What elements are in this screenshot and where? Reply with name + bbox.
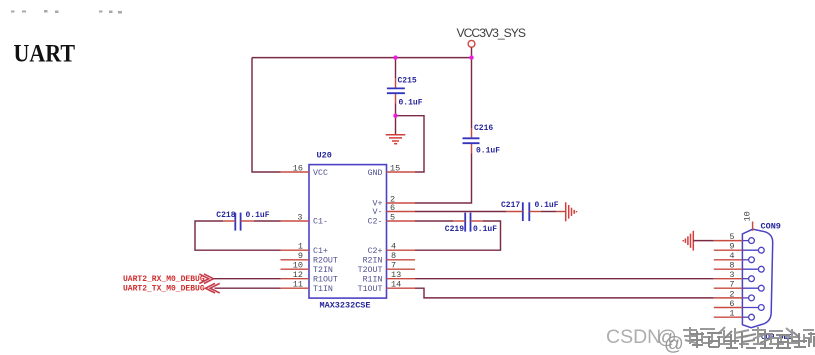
svg-text:10: 10 bbox=[293, 261, 303, 271]
svg-text:T2IN: T2IN bbox=[313, 266, 333, 275]
wire V- row to C217 bbox=[415, 211, 506, 213]
wire TX to pin 11 bbox=[215, 287, 281, 289]
svg-text:5: 5 bbox=[729, 232, 734, 242]
IC U20 body bbox=[309, 151, 387, 311]
CON9 pin 3 bbox=[714, 270, 755, 282]
watermark hanzi layer 1 bbox=[683, 327, 814, 344]
ground G3 (DB9 pin 5, left-pointing) bbox=[683, 231, 693, 251]
svg-text:UART: UART bbox=[14, 41, 76, 68]
U20 pin 10 T2IN stub bbox=[281, 261, 310, 271]
svg-text:3: 3 bbox=[729, 270, 734, 280]
wire C218 left to C1+ loop bbox=[223, 220, 235, 222]
U20 pin 3 C1- stub bbox=[281, 212, 310, 222]
wire VCC3V3 vertical upper (port to C216) bbox=[471, 47, 473, 128]
capacitor C219 bbox=[445, 213, 497, 234]
svg-text:CON9: CON9 bbox=[761, 222, 781, 232]
svg-text:7: 7 bbox=[391, 261, 396, 271]
node junction B (top bus / VCC3V3) bbox=[469, 55, 473, 59]
CON9 pin 10 shield stub bbox=[743, 211, 753, 231]
svg-text:T2OUT: T2OUT bbox=[358, 266, 383, 275]
U20 pin 15 GND stub bbox=[387, 163, 416, 173]
svg-text:VCC3V3_SYS: VCC3V3_SYS bbox=[457, 26, 527, 40]
U20 pin 14 T1OUT stub bbox=[387, 280, 416, 290]
svg-text:0.1uF: 0.1uF bbox=[473, 225, 497, 234]
svg-text:R2OUT: R2OUT bbox=[313, 256, 338, 265]
svg-text:14: 14 bbox=[391, 280, 401, 290]
U20 pin 12 R1OUT stub bbox=[281, 270, 310, 280]
ground G2 (C217, right-pointing) bbox=[566, 202, 577, 221]
CON9 pin 9 bbox=[714, 242, 764, 254]
port UART2_RX_M0_DEBUG bbox=[123, 274, 213, 284]
CON9 pin 7 bbox=[714, 280, 764, 292]
CON9 pin 4 bbox=[714, 251, 755, 262]
wire T1OUT to DB9 pin 2 bbox=[415, 288, 714, 298]
svg-text:6: 6 bbox=[390, 203, 395, 213]
wire C219 to C2+ loop bbox=[471, 220, 484, 222]
svg-text:C1-: C1- bbox=[313, 218, 328, 227]
capacitor C216 bbox=[463, 124, 501, 156]
svg-text:C1+: C1+ bbox=[313, 247, 328, 256]
CON9 pin 2 bbox=[714, 289, 755, 301]
node junction A (top bus / C215) bbox=[393, 55, 397, 59]
wire C217 to ground G2 bbox=[529, 211, 541, 213]
svg-text:R1OUT: R1OUT bbox=[313, 275, 338, 284]
svg-text:U20: U20 bbox=[317, 151, 332, 161]
U20 pin 7 T2OUT stub bbox=[387, 261, 416, 271]
svg-text:R2IN: R2IN bbox=[363, 256, 383, 265]
svg-text:2: 2 bbox=[729, 289, 734, 299]
svg-text:C217: C217 bbox=[501, 201, 520, 210]
svg-text:GND: GND bbox=[368, 169, 383, 178]
wire left vertical to VCC pin bbox=[252, 58, 281, 172]
svg-text:1: 1 bbox=[729, 309, 734, 319]
wire junction to ground G1 bbox=[395, 116, 397, 135]
power port VCC3V3_SYS bbox=[457, 26, 527, 47]
U20 pin 1 C1+ stub bbox=[281, 242, 310, 252]
connector CON9 DB9 shell bbox=[742, 222, 781, 328]
wire C215 lower to junction bbox=[395, 94, 397, 104]
watermark CSDN bbox=[606, 326, 684, 355]
CON9 pin 8 bbox=[714, 261, 764, 273]
capacitor C217 bbox=[501, 201, 559, 221]
wire G3 to DB9 pin 5 bbox=[693, 240, 714, 242]
header smudges bbox=[11, 10, 122, 14]
capacitor C215 bbox=[387, 77, 423, 108]
svg-text:C216: C216 bbox=[474, 124, 493, 133]
svg-text:R1IN: R1IN bbox=[363, 275, 383, 284]
svg-text:UART2_RX_M0_DEBUG: UART2_RX_M0_DEBUG bbox=[123, 275, 205, 284]
port UART2_TX_M0_DEBUG bbox=[123, 283, 220, 293]
svg-text:1: 1 bbox=[298, 242, 303, 252]
svg-text:T1IN: T1IN bbox=[313, 285, 333, 294]
CON9 pin 5 bbox=[714, 232, 755, 244]
wire R1IN to DB9 pin 3 bbox=[415, 278, 714, 280]
U20 pin 6 V- stub bbox=[387, 203, 416, 213]
U20 pin 8 R2IN stub bbox=[387, 251, 416, 261]
svg-text:T1OUT: T1OUT bbox=[358, 285, 383, 294]
wire C217 left pin bbox=[506, 211, 523, 213]
svg-text:0.1uF: 0.1uF bbox=[399, 99, 423, 108]
CON9 pin 6 bbox=[714, 299, 764, 311]
ground G1 (C215) bbox=[386, 135, 406, 144]
svg-text:11: 11 bbox=[293, 280, 303, 290]
svg-text:10: 10 bbox=[743, 211, 753, 221]
CON9 pin 1 bbox=[714, 309, 755, 321]
U20 pin 2 V+ stub bbox=[387, 194, 416, 204]
wire C2- row to C219 bbox=[415, 220, 453, 222]
svg-text:8: 8 bbox=[729, 261, 734, 271]
U20 pin 16 VCC stub bbox=[281, 163, 310, 173]
svg-text:3: 3 bbox=[297, 212, 302, 222]
svg-text:C218: C218 bbox=[216, 211, 235, 220]
svg-text:0.1uF: 0.1uF bbox=[476, 147, 500, 156]
svg-text:15: 15 bbox=[390, 163, 400, 173]
svg-text:0.1uF: 0.1uF bbox=[246, 211, 270, 220]
wire RX to pin 12 bbox=[213, 278, 280, 280]
U20 pin 13 R1IN stub bbox=[387, 270, 416, 280]
wire C215 branch upper bbox=[395, 58, 397, 78]
svg-text:CSDN: CSDN bbox=[606, 326, 661, 348]
svg-text:6: 6 bbox=[729, 299, 734, 309]
svg-text:@: @ bbox=[664, 333, 684, 355]
svg-text:16: 16 bbox=[293, 163, 303, 173]
U20 inner pin names bbox=[313, 169, 383, 294]
U20 pin 11 T1IN stub bbox=[281, 280, 310, 290]
capacitor C218 bbox=[216, 211, 269, 231]
watermark hanzi layer 2 bbox=[690, 331, 815, 348]
svg-text:C219: C219 bbox=[445, 225, 464, 234]
U20 pin 5 C2- stub bbox=[387, 212, 416, 222]
svg-text:C2-: C2- bbox=[368, 218, 383, 227]
wire C1- loop left bbox=[254, 220, 281, 222]
svg-text:UART2_TX_M0_DEBUG: UART2_TX_M0_DEBUG bbox=[123, 284, 205, 293]
svg-text:4: 4 bbox=[391, 242, 396, 252]
svg-text:13: 13 bbox=[391, 270, 401, 280]
svg-text:0.1uF: 0.1uF bbox=[535, 201, 559, 210]
svg-text:7: 7 bbox=[729, 280, 734, 290]
svg-text:MAX3232CSE: MAX3232CSE bbox=[320, 301, 371, 311]
U20 pin 9 R2OUT stub bbox=[281, 251, 310, 261]
svg-text:5: 5 bbox=[390, 212, 395, 222]
svg-text:C2+: C2+ bbox=[368, 247, 383, 256]
wire junction to GND pin 15 bbox=[396, 116, 425, 172]
U20 pin 4 C2+ stub bbox=[387, 242, 416, 252]
wire C216 to V+ row bbox=[471, 144, 473, 154]
node junction C (C215 / GND net) bbox=[393, 114, 397, 118]
svg-text:C215: C215 bbox=[398, 77, 417, 86]
svg-text:9: 9 bbox=[729, 242, 734, 252]
wire top horizontal bus bbox=[252, 57, 472, 59]
svg-text:V-: V- bbox=[373, 208, 383, 217]
svg-text:12: 12 bbox=[293, 270, 303, 280]
svg-text:VCC: VCC bbox=[313, 169, 328, 178]
